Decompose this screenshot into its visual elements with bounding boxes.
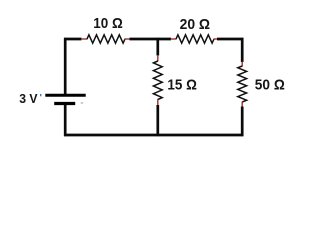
- wire: left vertical lower (battery to bottom): [64, 105, 67, 136]
- wire: right vertical lower: [241, 107, 244, 137]
- svg-text:10 Ω: 10 Ω: [93, 15, 123, 32]
- wire: red stub below R3: [157, 99, 159, 105]
- wire: middle vertical lower: [156, 105, 159, 136]
- svg-text:15 Ω: 15 Ω: [167, 77, 197, 94]
- wire: bottom segment: [64, 134, 243, 137]
- wire: top-left segment: [64, 38, 81, 41]
- wire: right vertical upper: [241, 38, 244, 62]
- wire: top-middle segment: [130, 38, 172, 41]
- resistor R2 20ohm zigzag: [176, 35, 214, 43]
- wire: middle vertical upper: [156, 38, 159, 56]
- wire: red stub below R4: [241, 102, 243, 108]
- wire: left vertical upper (to battery top plate): [64, 38, 67, 94]
- battery B1 short negative plate: [54, 102, 75, 105]
- wire: red stub right of R2: [214, 38, 218, 40]
- wire: red stub left of R2: [171, 38, 177, 40]
- wire: top-right segment: [217, 38, 243, 41]
- battery B1 long positive plate: [45, 94, 85, 97]
- wire: red stub left of R1: [81, 38, 88, 40]
- blue artifact left of battery: [40, 94, 41, 96]
- wire: red stub above R4: [241, 62, 243, 67]
- battery artifact dash: [81, 102, 84, 104]
- svg-text:20 Ω: 20 Ω: [180, 16, 211, 33]
- resistor R4 50ohm zigzag: [238, 66, 247, 102]
- resistor R1 10ohm zigzag: [87, 35, 125, 43]
- resistor R3 15ohm zigzag: [153, 61, 162, 100]
- svg-text:50 Ω: 50 Ω: [255, 77, 285, 94]
- wire: red stub above R3: [157, 55, 159, 62]
- svg-text:3 V: 3 V: [19, 91, 37, 106]
- wire: red stub right of R1: [125, 38, 130, 40]
